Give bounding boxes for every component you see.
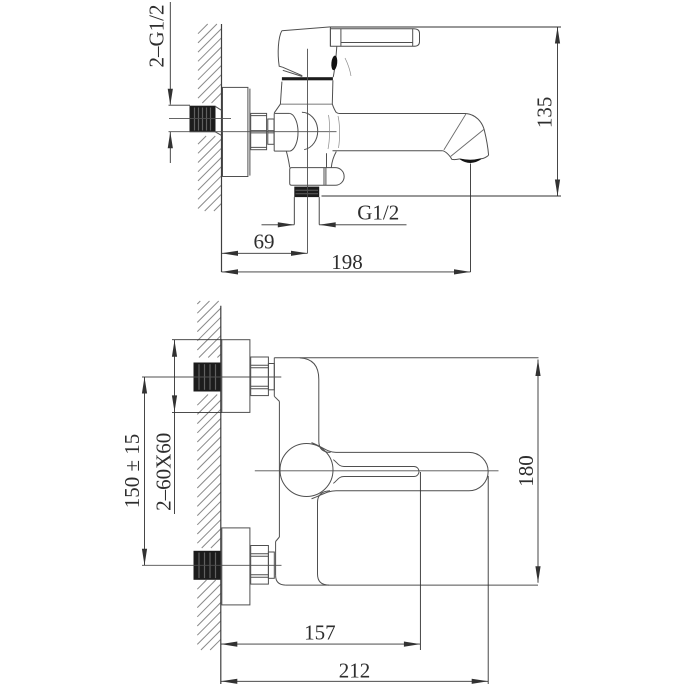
svg-text:212: 212 [339, 658, 371, 682]
body shading flow lines [328, 58, 351, 149]
spout tip extension line [470, 164, 472, 273]
body inlet sphere (side view) [274, 112, 318, 151]
dimension 157 [221, 642, 421, 647]
svg-text:150 ± 15: 150 ± 15 [120, 434, 144, 509]
handle knob circle (plan view) [280, 444, 333, 497]
faucet body outline (plan view) [274, 358, 538, 585]
handle cap (side view) [278, 27, 330, 77]
main vertical centerline (side view) [307, 49, 309, 254]
cartridge collar ring (dark band) [282, 77, 333, 80]
eccentric thread bottom (plan view, dark) [194, 551, 220, 579]
svg-text:2–60X60: 2–60X60 [152, 433, 176, 511]
dimension 135 line [555, 27, 560, 196]
svg-text:2–G1/2: 2–G1/2 [144, 5, 168, 68]
svg-text:G1/2: G1/2 [357, 200, 399, 224]
eccentric thread top (plan view, dark) [194, 363, 220, 391]
union nut bottom (plan view) [251, 546, 275, 585]
handle lever (side view) [330, 27, 419, 46]
cartridge tower contour (plan view) [300, 358, 331, 585]
dimension G1/2 leader [262, 222, 407, 227]
dimension 2-60X60 line [172, 340, 177, 514]
inlet centerline bottom (plan view) [142, 564, 282, 566]
dimension 2-G1/2 extension line [169, 104, 191, 106]
outlet extension lines [293, 197, 295, 225]
svg-text:157: 157 [304, 620, 336, 644]
dimension 2-G1/2 line and arrows [169, 2, 171, 105]
inlet centerline top (plan view) [142, 376, 281, 378]
union tailpiece (side view) [268, 119, 274, 144]
handle neck and indicator dot [331, 46, 338, 77]
wall hatching (plan view) [197, 301, 221, 650]
escutcheon plate bottom (plan view) [222, 528, 250, 605]
dimension 69 [222, 251, 308, 256]
dimension 150±15 [142, 377, 147, 565]
union nut (side view) [251, 113, 267, 149]
spout (side view) [333, 112, 489, 159]
faucet axis centerline (side view) [169, 131, 337, 133]
spout nose facet lines [444, 114, 484, 157]
thread axis centerline [169, 117, 231, 119]
handle centerline (plan view) [255, 470, 499, 472]
wall hatching (side view) [198, 24, 222, 211]
extension line 157 (grip end) [419, 472, 421, 650]
shower diverter outlet capsule (side view) [286, 151, 344, 185]
dimension 180 [535, 360, 540, 583]
extension line 212 (handle tip) [487, 476, 489, 684]
handle lever capsule (plan view) [312, 443, 489, 499]
handle grip slot (plan view) [333, 460, 419, 484]
dimension 212 [221, 679, 488, 684]
cartridge collar (side view) [274, 80, 336, 113]
wall face line (plan view) [220, 306, 222, 684]
dimension 135 extension lines [330, 26, 561, 28]
shower outlet G1/2 thread (dark) [294, 187, 319, 198]
escutcheon plate top (plan view) [222, 340, 250, 413]
wall face line (side view) [221, 24, 223, 272]
eccentric union thread (wall inlet, side view) [190, 106, 222, 135]
dimension 198 [222, 269, 471, 274]
union nut top (plan view) [251, 357, 275, 396]
wall escutcheon plate (side view) [223, 87, 248, 176]
spout aerator (dark) [460, 159, 482, 163]
svg-text:69: 69 [254, 230, 275, 254]
svg-text:135: 135 [532, 97, 556, 128]
svg-text:198: 198 [331, 250, 363, 274]
dimension 2-60X60 extension lines [172, 339, 222, 341]
svg-text:180: 180 [514, 455, 538, 487]
